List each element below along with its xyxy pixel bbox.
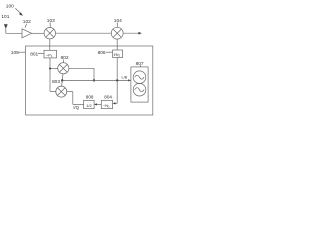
label 105 xyxy=(11,50,19,56)
wire divider 804 to divider 808 xyxy=(94,103,101,105)
svg-text:1/2: 1/2 xyxy=(86,103,92,108)
svg-text:806: 806 xyxy=(98,50,106,56)
leader 104 xyxy=(116,22,118,27)
label 101 xyxy=(1,14,9,20)
junction dot xyxy=(93,79,95,81)
mixer 104 xyxy=(111,27,123,39)
svg-text:100: 100 xyxy=(6,3,14,9)
wire divider 801 down xyxy=(49,58,51,92)
wire antenna to amp xyxy=(6,32,22,34)
wire to mixer 802 input xyxy=(50,68,58,70)
label 806 xyxy=(98,50,106,56)
leader 802 xyxy=(62,60,64,63)
svg-text:f/N2: f/N2 xyxy=(114,53,121,58)
junction dot xyxy=(61,79,63,81)
svg-text:808: 808 xyxy=(86,95,94,100)
svg-text:804: 804 xyxy=(104,95,112,100)
wire mixer 803 output to divider 808 xyxy=(67,92,84,105)
label 803 xyxy=(52,79,60,85)
oscillator top xyxy=(133,71,146,84)
label 802 xyxy=(61,55,69,61)
svg-text:I/Q: I/Q xyxy=(73,105,79,110)
svg-text:÷P1: ÷P1 xyxy=(46,52,53,58)
svg-text:803: 803 xyxy=(52,79,60,85)
output wire with arrow xyxy=(123,32,142,35)
junction dot xyxy=(116,79,118,81)
svg-text:104: 104 xyxy=(114,18,122,24)
label L/B xyxy=(122,75,128,79)
divider 801 xyxy=(44,50,57,58)
wire mixer 103 to mixer 104 xyxy=(56,32,112,34)
divider 806 xyxy=(113,50,123,58)
svg-text:802: 802 xyxy=(61,55,69,61)
leader 807 xyxy=(139,65,141,67)
leader 806 xyxy=(106,51,112,53)
antenna xyxy=(4,24,8,33)
leader 102 xyxy=(25,24,27,28)
mixer 802 xyxy=(58,63,69,74)
label 804 xyxy=(104,95,112,100)
wire mixer 802 output right xyxy=(69,67,94,69)
wire amp to mixer 103 xyxy=(32,32,44,34)
junction dot xyxy=(49,68,51,70)
divider 804 xyxy=(101,100,112,108)
svg-text:103: 103 xyxy=(47,18,55,24)
synthesizer block 105 xyxy=(26,46,153,115)
wire riser down to LO line xyxy=(93,68,95,80)
label 102 xyxy=(23,19,31,25)
leader 103 xyxy=(49,22,51,27)
leader 801 xyxy=(38,53,44,55)
label 104 xyxy=(114,18,122,24)
label 801 xyxy=(30,51,38,57)
mixer 103 xyxy=(44,28,55,39)
oscillator block 807 xyxy=(131,67,148,102)
svg-text:÷N1: ÷N1 xyxy=(103,103,110,109)
LO distribution line xyxy=(62,79,131,81)
svg-text:807: 807 xyxy=(136,61,144,67)
wire mixer 103 down to divider 801 xyxy=(49,39,51,50)
mixer 803 xyxy=(56,86,67,97)
label 100 xyxy=(6,3,14,9)
oscillator bottom xyxy=(133,83,146,96)
divider 808 xyxy=(84,100,95,108)
label 103 xyxy=(47,18,55,24)
wire between mixers 802 and 803 xyxy=(62,74,63,86)
wire mixer 104 down to divider 806 xyxy=(116,39,118,50)
svg-text:102: 102 xyxy=(23,19,31,25)
wire divider 806 down to LO line and to divider 804 xyxy=(113,58,118,105)
label 807 xyxy=(136,61,144,67)
arrow from label 100 xyxy=(15,8,23,16)
svg-text:101: 101 xyxy=(1,14,9,20)
label I/Q xyxy=(73,105,79,110)
leader 105 xyxy=(18,51,25,53)
svg-text:105: 105 xyxy=(11,50,19,56)
wire to mixer 803 input xyxy=(50,90,56,92)
svg-text:L/B: L/B xyxy=(122,75,128,79)
svg-text:801: 801 xyxy=(30,51,38,57)
amplifier 102 xyxy=(22,29,32,38)
label 808 xyxy=(86,95,94,100)
